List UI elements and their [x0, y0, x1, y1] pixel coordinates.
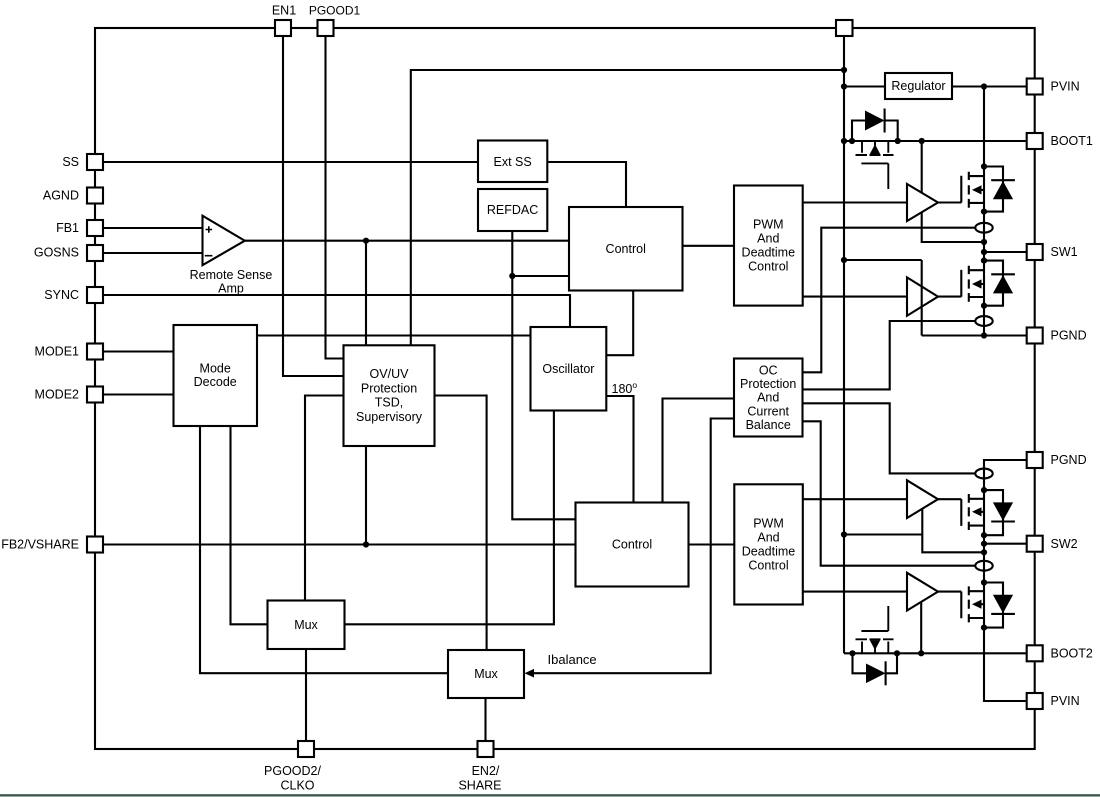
pin SYNC: [87, 287, 103, 303]
svg-text:REFDAC: REFDAC: [487, 203, 538, 217]
power mosfet Q1 with body diode D1: [961, 167, 1015, 212]
node dot regulator input: [841, 83, 847, 89]
block Control 2: [576, 503, 689, 587]
wire MODE1 to Mode Decode: [103, 350, 174, 352]
wire FB2/VSHARE to Control 2: [103, 543, 576, 545]
wire driver-2 output to gate: [938, 296, 961, 298]
wire OC right to sense-3: [803, 403, 976, 473]
amp minus sign: [205, 255, 213, 257]
node dot boot1 loop left: [849, 138, 855, 144]
sense element ellipse 2: [975, 316, 992, 326]
pin MODE1: [87, 344, 103, 360]
bootstrap switch Q6 diode loop: [853, 653, 898, 673]
wire driver-2 input from PWM 1: [803, 296, 907, 298]
sense element ellipse 3: [975, 469, 992, 479]
wire OC left down Ibalance to Mux 2: [527, 419, 734, 674]
svg-text:Ext SS: Ext SS: [493, 155, 531, 169]
power mosfet Q2 with body diode D2: [961, 261, 1015, 306]
wire driver-1 input from PWM 1: [803, 201, 907, 203]
wire driver-3 input from PWM 2: [803, 498, 907, 500]
svg-text:Ibalance: Ibalance: [548, 652, 597, 667]
wire Oscillator to Control 1: [606, 291, 633, 356]
svg-text:GOSNS: GOSNS: [34, 246, 79, 260]
node dot amp out branch: [363, 238, 369, 244]
block OC Protection And Current Balance: [734, 359, 803, 437]
driver U3 triangle: [907, 480, 938, 518]
node dot VIN/BOOT1: [841, 138, 847, 144]
wire driver-1 output to gate: [938, 201, 961, 203]
block Mux 1: [268, 601, 345, 650]
pin AVIN top right: [836, 20, 853, 36]
wire through driver-2 to PGND line: [844, 260, 1027, 336]
driver U4 triangle: [907, 573, 938, 611]
block Regulator: [885, 73, 952, 99]
block OV/UV Protection TSD Supervisory: [344, 345, 435, 446]
node dot D4 bottom: [981, 625, 987, 631]
wire SYNC to Oscillator top: [103, 295, 570, 327]
wire OV/UV bottom to FB2 line: [365, 446, 367, 545]
bootstrap Q6 body arrow: [870, 640, 881, 650]
sense element ellipse 1: [975, 223, 992, 233]
pin SW1: [1027, 244, 1043, 260]
wire PGND2 pin to channel-2 rail and PVIN pin: [984, 460, 1027, 701]
node dot boot2 loop left: [849, 650, 855, 656]
pin MODE2: [87, 387, 103, 403]
wire driver-3 output to gate: [938, 498, 961, 500]
node dot FB2 branch: [363, 541, 369, 547]
node dot SW2: [981, 541, 987, 547]
wire VIN sense to OV/UV top: [411, 70, 844, 345]
svg-text:SYNC: SYNC: [44, 288, 79, 302]
wire BOOT2 line: [844, 652, 1027, 654]
amp plus sign: [206, 226, 213, 233]
wire Regulator input from VIN vertical: [844, 85, 885, 87]
wire Control 2 to PWM 2: [689, 543, 735, 545]
svg-text:ModeDecode: ModeDecode: [194, 361, 237, 389]
wire driver-3 bottom to SW2 node: [922, 509, 984, 553]
svg-text:Regulator: Regulator: [891, 79, 945, 93]
svg-text:FB1: FB1: [56, 221, 79, 235]
wire driver-4 input from PWM 2: [803, 591, 907, 593]
bootstrap diode D6: [866, 664, 886, 684]
arrowhead Ibalance into Mux 2: [525, 669, 535, 678]
driver U2 triangle: [907, 277, 938, 315]
pin PVIN 2: [1027, 693, 1043, 709]
svg-text:PGND: PGND: [1051, 329, 1087, 343]
wire OC right to sense-4: [803, 421, 976, 565]
node dot D3 bottom: [981, 532, 987, 538]
driver U1 triangle: [907, 184, 938, 221]
pin PGOOD2/CLKO: [298, 741, 314, 757]
wire BOOT1 line: [844, 140, 1027, 142]
pin PGOOD1: [318, 20, 334, 36]
pin PGND 2: [1027, 452, 1043, 468]
wire sense-2 to OC right: [803, 321, 976, 389]
wire amp output to Control 1: [245, 240, 569, 242]
wire amp output branch to OV/UV top: [365, 241, 367, 346]
wire Ext SS out to Control 1 top: [547, 162, 626, 207]
bootstrap diode D5: [865, 111, 885, 131]
page footer rule: [0, 794, 1100, 796]
wire OV/UV right out to Mux 2 top: [435, 396, 487, 651]
pin FB2/VSHARE: [87, 537, 103, 553]
pin GOSNS: [87, 245, 103, 261]
node dot boot2 loop right: [894, 650, 900, 656]
node dot refdac branch: [509, 273, 515, 279]
bootstrap switch Q5 mosfet: [856, 141, 894, 189]
pin EN2/SHARE: [478, 741, 494, 757]
wire Oscillator bottom to Mux 1 right: [345, 411, 554, 625]
pin BOOT2: [1027, 645, 1043, 661]
svg-text:Control: Control: [612, 538, 652, 552]
node dot SW1: [981, 249, 987, 255]
wire driver-1 bottom to SW node: [922, 212, 984, 242]
block PWM And Deadtime Control 1: [734, 186, 803, 306]
wire Mux 1 bottom to PGOOD2/CLKO pin: [305, 649, 307, 741]
bootstrap switch Q5 diode loop: [852, 121, 898, 142]
block REFDAC: [478, 189, 547, 231]
node dot boot2 driver feed: [918, 650, 924, 656]
pin SS: [87, 154, 103, 170]
pin SW2: [1027, 536, 1043, 552]
block PWM And Deadtime Control 2: [734, 484, 803, 604]
wire OV/UV left out to Mux 1 top: [305, 396, 344, 601]
pin PVIN 1: [1027, 79, 1043, 95]
svg-text:PGND: PGND: [1051, 453, 1087, 467]
pin AGND: [87, 188, 103, 204]
wire VIN long vertical from top pin: [843, 36, 845, 653]
wire driver-4 output to gate: [938, 591, 961, 593]
wire GOSNS to amp - input: [103, 252, 203, 254]
wire Mode Decode to Oscillator: [257, 334, 531, 336]
bootstrap Q5 body arrow: [870, 144, 881, 154]
wire driver-4 feed from BOOT2: [920, 602, 922, 653]
svg-text:MODE1: MODE1: [35, 345, 80, 359]
block Mode Decode: [174, 325, 258, 426]
svg-text:Mux: Mux: [474, 667, 498, 681]
wire SW2 to pin: [984, 543, 1027, 545]
bootstrap switch Q6 mosfet: [856, 606, 894, 653]
wire channel-1 power rail vertical: [983, 87, 985, 336]
svg-text:Mux: Mux: [294, 618, 318, 632]
block Control 1: [569, 207, 683, 291]
wire Regulator output to PVIN pin: [952, 85, 1027, 87]
svg-text:SW1: SW1: [1051, 245, 1078, 259]
node dot D2 bottom: [981, 303, 987, 309]
block Mux 2: [448, 650, 524, 698]
wire Control 1 to PWM 1: [683, 245, 735, 247]
svg-text:AGND: AGND: [43, 189, 79, 203]
svg-text:PVIN: PVIN: [1051, 80, 1080, 94]
node dot driver1 bottom: [981, 239, 987, 245]
wire MODE2 to Mode Decode: [103, 393, 174, 395]
power mosfet Q3 with body diode D3: [961, 490, 1015, 535]
wire PGOOD1 down to OV/UV left: [326, 36, 344, 359]
svg-text:MODE2: MODE2: [35, 388, 80, 402]
wire VIN branch to driver-3 rail: [844, 533, 922, 535]
svg-text:EN1: EN1: [272, 4, 296, 18]
wire SW1 to pin: [984, 251, 1027, 253]
svg-text:Oscillator: Oscillator: [542, 362, 594, 376]
wire Mode Decode drop to Mux 2 left: [200, 426, 448, 673]
node dot driver3 bottom: [981, 549, 987, 555]
node dot D1 top: [981, 163, 987, 169]
node dot VIN branch 2: [841, 531, 847, 537]
svg-text:BOOT1: BOOT1: [1051, 134, 1093, 148]
node dot PGND1: [981, 332, 987, 338]
block Oscillator: [531, 327, 607, 411]
node dot VIN branch 1: [841, 257, 847, 263]
svg-text:PVIN: PVIN: [1051, 694, 1080, 708]
block Ext SS: [478, 141, 547, 183]
wire EN1 down to OV/UV left: [283, 36, 344, 376]
wire SS to Ext SS: [103, 161, 478, 163]
wire Oscillator to Control 2 top: [606, 396, 633, 503]
svg-text:SS: SS: [62, 155, 79, 169]
svg-text:FB2/VSHARE: FB2/VSHARE: [1, 538, 79, 552]
wire Mode Decode drop to Mux 1 left: [231, 426, 268, 624]
svg-text:Control: Control: [606, 242, 646, 256]
node dot D3 top: [981, 487, 987, 493]
node dot PVIN rail top: [981, 83, 987, 89]
pin BOOT1: [1027, 133, 1043, 149]
wire driver-1 top feed from BOOT1: [921, 141, 923, 193]
wire OC left to Control 2 top: [663, 399, 735, 503]
node dot D2 top: [981, 258, 987, 264]
node dot VIN-sense: [841, 67, 847, 73]
wire sense-1 to OC top right: [803, 228, 976, 373]
wire Mux 2 bottom to EN2/SHARE pin: [484, 698, 486, 741]
op-amp remote sense amp: [203, 216, 245, 266]
svg-text:BOOT2: BOOT2: [1051, 647, 1093, 661]
node dot D1 bottom: [981, 209, 987, 215]
pin EN1: [275, 20, 291, 36]
node dot D4 top: [981, 579, 987, 585]
node dot boot1 driver feed: [919, 138, 925, 144]
svg-text:SW2: SW2: [1051, 537, 1078, 551]
sense element ellipse 4: [975, 561, 992, 571]
svg-text:PGOOD1: PGOOD1: [309, 4, 361, 18]
wire REFDAC down / branch to Control 1 / to Control 2: [512, 231, 575, 519]
power mosfet Q4 with body diode D4: [961, 583, 1015, 628]
outer IC boundary: [95, 28, 1035, 749]
wire FB1 to amp + input: [103, 227, 203, 229]
pin PGND 1: [1027, 328, 1043, 344]
node dot boot1 loop right: [895, 138, 901, 144]
pin FB1: [87, 220, 103, 236]
